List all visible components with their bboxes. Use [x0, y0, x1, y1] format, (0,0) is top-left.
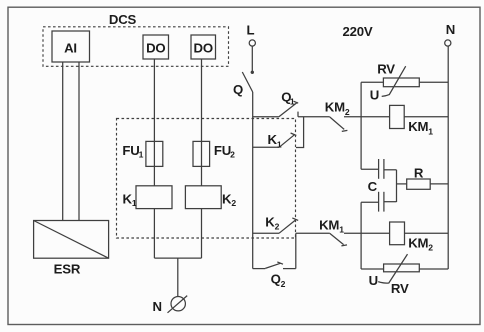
relay enclosure (dashed): [117, 119, 296, 239]
capacitor C (lower half): [378, 192, 380, 212]
svg-text:K2: K2: [265, 214, 279, 231]
contact KM2 (in series to KM1 coil): [330, 117, 344, 129]
relay coil K1: [136, 186, 172, 209]
svg-text:AI: AI: [64, 40, 77, 55]
svg-text:U: U: [369, 273, 378, 288]
switch Q: [242, 72, 252, 92]
fuse FU1: [146, 141, 163, 166]
block DO (left): [143, 35, 169, 59]
L terminal: [249, 40, 255, 46]
svg-text:DO: DO: [146, 40, 165, 55]
svg-text:N: N: [446, 22, 455, 37]
node vertical (lower branch bus): [360, 202, 362, 269]
node vertical (upper branch bus): [360, 82, 362, 169]
switch Q2: [253, 268, 266, 270]
wire L down: [251, 46, 253, 71]
svg-text:KM1: KM1: [319, 217, 344, 234]
svg-text:Q: Q: [233, 82, 243, 97]
DCS enclosure (dashed): [43, 27, 229, 67]
contactor coil KM1: [361, 116, 390, 118]
wire DO1 to K1 coil: [153, 59, 155, 186]
svg-text:L: L: [246, 23, 254, 38]
wire AI to ESR (right lead): [78, 62, 80, 221]
N terminal (bottom): [171, 297, 185, 311]
svg-text:C: C: [368, 179, 378, 194]
wire AI to ESR (left lead): [62, 62, 64, 221]
varistor RV (top): [361, 81, 383, 83]
svg-text:RV: RV: [377, 61, 395, 76]
svg-text:KM1: KM1: [408, 119, 433, 136]
svg-text:K1: K1: [268, 132, 282, 149]
contactor coil KM2: [361, 232, 390, 234]
contact K2: [253, 232, 279, 234]
contact K1: [253, 146, 279, 148]
varistor RV (bottom): [361, 268, 384, 270]
svg-text:220V: 220V: [343, 24, 373, 39]
svg-text:Q1: Q1: [281, 90, 295, 107]
neutral vertical bus: [447, 46, 449, 269]
svg-text:FU2: FU2: [214, 143, 235, 160]
relay coil K2: [185, 186, 221, 209]
ESR block: [34, 221, 109, 259]
switch Q1: [253, 116, 279, 118]
svg-text:DCS: DCS: [109, 12, 137, 27]
svg-text:DO: DO: [194, 40, 213, 55]
block AI: [52, 31, 90, 62]
wire to N terminal: [177, 258, 179, 296]
block DO (right): [191, 35, 216, 59]
wire K1 coil down: [153, 209, 155, 259]
svg-text:N: N: [153, 299, 162, 314]
resistor R: [397, 183, 407, 185]
svg-text:RV: RV: [391, 281, 409, 296]
main live vertical: [252, 92, 254, 269]
wire K2 coil down: [201, 209, 203, 259]
svg-text:FU1: FU1: [122, 143, 143, 160]
wire joining coils: [154, 257, 201, 259]
fuse FU2: [193, 141, 210, 166]
svg-text:ESR: ESR: [54, 261, 81, 276]
svg-text:K2: K2: [222, 192, 236, 209]
svg-text:KM2: KM2: [408, 235, 433, 252]
N terminal (top): [445, 40, 451, 46]
capacitor C (upper half): [361, 168, 378, 170]
svg-text:Q2: Q2: [271, 272, 286, 289]
svg-text:KM2: KM2: [325, 100, 350, 117]
contact KM1 (in series to KM2 coil): [296, 232, 330, 234]
capacitor midpoint vertical: [396, 170, 398, 202]
wire DO2 to K2 coil: [201, 59, 203, 186]
svg-text:R: R: [414, 165, 424, 180]
svg-text:K1: K1: [123, 192, 137, 209]
svg-text:U: U: [370, 87, 379, 102]
